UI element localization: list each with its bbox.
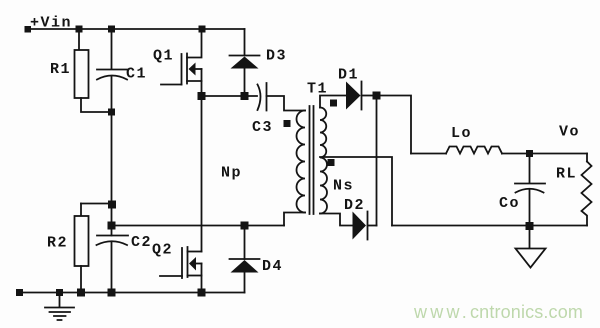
wire D3 anode lead	[244, 69, 246, 97]
transistor Q1 gate bar	[181, 54, 183, 85]
wire D1 cathode lead	[362, 95, 374, 97]
wire Q1 body line	[196, 68, 202, 70]
diode D4	[230, 258, 260, 260]
svg-text:R1: R1	[50, 61, 71, 78]
capacitor C3	[258, 83, 267, 111]
wire D2 cathode lead	[368, 225, 377, 227]
wire Q1 gate lead	[161, 84, 182, 86]
transistor Q1 arrow	[189, 63, 196, 76]
wire D4 cathode lead	[244, 226, 246, 260]
wire rectifier output vertical	[376, 96, 378, 226]
svg-text:+Vin: +Vin	[30, 15, 72, 32]
svg-text:RL: RL	[556, 166, 577, 183]
node T1 primary polarity dot	[284, 120, 291, 127]
svg-text:D3: D3	[266, 48, 287, 65]
capacitor Co	[515, 157, 545, 193]
node rectifier output	[373, 92, 381, 100]
svg-text:Np: Np	[221, 165, 242, 182]
svg-text:www.cntronics.com: www.cntronics.com	[413, 302, 583, 322]
transistor Q2 channel bar	[187, 247, 189, 277]
wire C3 to primary top	[267, 96, 306, 111]
node switch midpoint	[198, 92, 206, 100]
svg-text:R2: R2	[47, 235, 68, 252]
svg-text:Co: Co	[499, 195, 520, 212]
node R1 top	[76, 26, 83, 33]
svg-text:D2: D2	[344, 197, 365, 214]
wire Q1 source lead	[187, 80, 202, 82]
wire C2 bottom lead	[111, 242, 113, 293]
wire secondary center tap	[320, 157, 392, 226]
node C2 bottom	[108, 289, 116, 297]
diode D3	[230, 29, 260, 56]
resistor R2	[75, 216, 89, 266]
wire Q2 drain lead	[188, 251, 202, 253]
node Co bottom	[526, 222, 534, 230]
svg-text:C1: C1	[126, 66, 147, 83]
svg-text:Q1: Q1	[153, 48, 174, 65]
wire midpoint row	[202, 95, 258, 97]
wire Q1 body/source down	[201, 69, 203, 96]
node Q2 source	[198, 289, 206, 297]
wire primary bottom lead	[284, 213, 305, 226]
svg-text:D1: D1	[338, 67, 359, 84]
node C1 top	[108, 26, 115, 33]
wire Vo corner down to RL	[586, 154, 588, 162]
wire Q2 source lead	[188, 275, 202, 277]
node D4 top	[241, 222, 249, 230]
resistor R1	[75, 50, 89, 98]
ground input earth symbol	[45, 296, 74, 320]
wire secondary bottom lead	[320, 214, 353, 226]
wire Lo left lead	[411, 153, 446, 155]
node R1-C1 junction	[108, 109, 115, 116]
node +Vin terminal	[25, 26, 32, 33]
wire R2 tap	[81, 203, 112, 205]
wire Q1 drain lead	[187, 29, 202, 58]
diode D2	[353, 212, 367, 240]
node R2 tap	[108, 201, 116, 209]
transformer T1 core	[310, 106, 314, 214]
transistor Q2 arrow	[189, 257, 196, 271]
node T1 secondary mid polarity dot	[328, 159, 335, 166]
node Lo output Vo	[526, 150, 533, 157]
diode D1	[346, 82, 361, 110]
node D3 anode	[241, 92, 249, 100]
wire secondary top lead	[320, 96, 346, 108]
wire Q2 body/source down	[201, 264, 203, 293]
transformer T1 primary winding Np	[297, 111, 306, 213]
node bottom-left terminal	[16, 289, 23, 296]
wire rectifier output node to corner	[380, 96, 411, 154]
wire C1 bottom / divider midpoint vertical	[111, 77, 113, 236]
node R2 bottom	[77, 289, 85, 297]
wire R2 bottom lead	[80, 266, 82, 293]
wire Co bottom lead	[529, 189, 531, 226]
capacitor C2	[97, 236, 129, 246]
wire Lo to Vo node	[502, 153, 587, 155]
node ground junction	[56, 289, 63, 296]
wire R2 top lead	[80, 204, 82, 217]
wire output bottom rail	[392, 225, 587, 227]
inductor Lo	[446, 147, 502, 154]
node Q1 drain	[199, 26, 206, 33]
node T1 secondary top polarity dot	[330, 100, 337, 107]
node primary return at C2	[108, 222, 116, 230]
svg-text:T1: T1	[307, 81, 328, 98]
svg-text:Vo: Vo	[559, 124, 580, 141]
svg-text:Lo: Lo	[451, 125, 472, 142]
wire primary return rail	[112, 225, 285, 227]
transistor Q2 gate bar	[181, 248, 183, 278]
svg-text:D4: D4	[262, 258, 283, 275]
wire R1 bottom lead	[81, 98, 108, 112]
resistor RL zigzag	[582, 162, 592, 226]
svg-text:Ns: Ns	[333, 178, 354, 195]
wire output ground stub	[529, 229, 531, 249]
wire R1 top lead	[78, 29, 80, 50]
capacitor C1	[97, 32, 127, 80]
ground output triangle	[516, 249, 546, 268]
wire Q2 gate lead	[160, 275, 182, 277]
svg-text:Q2: Q2	[152, 242, 173, 259]
wire Q2 body line	[196, 263, 202, 265]
wire top rail	[30, 28, 245, 30]
svg-text:C2: C2	[131, 234, 152, 251]
wire D4 anode lead	[244, 273, 246, 293]
svg-text:C3: C3	[252, 119, 273, 136]
transformer T1 secondary winding Ns	[320, 108, 327, 214]
wire bottom rail	[20, 292, 245, 294]
transistor Q1 channel bar	[186, 54, 188, 84]
wire switch midpoint vertical	[201, 96, 203, 252]
